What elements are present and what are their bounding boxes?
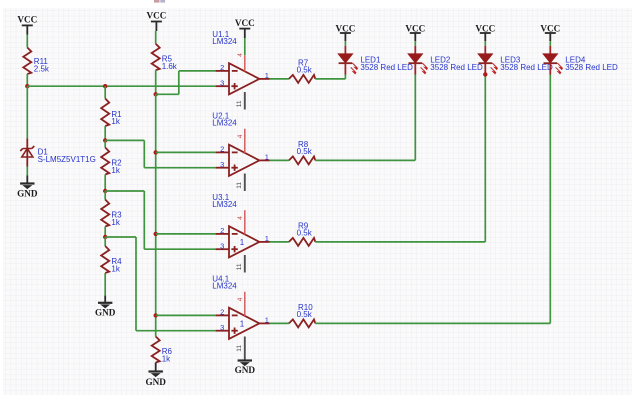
LED1 labels (360, 56, 413, 72)
screen artifact top edge (154, 0, 160, 3)
LED4 labels (565, 56, 618, 72)
resistor R10 body (289, 319, 315, 327)
svg-text:1: 1 (240, 320, 245, 329)
svg-text:1k: 1k (111, 264, 120, 273)
svg-text:LM324: LM324 (212, 37, 237, 46)
svg-text:VCC: VCC (405, 23, 425, 33)
label R7 (298, 59, 309, 68)
op-amp U3.1 pin numbers (220, 226, 269, 250)
svg-text:3528 Red LED: 3528 Red LED (500, 63, 553, 72)
VCC symbol above LED1 (335, 23, 355, 41)
op-amp U1.1 pin 11 (244, 92, 246, 110)
wire bus node A to U1 pin3 (27, 85, 215, 87)
wire R5 to node E (155, 70, 157, 94)
svg-text:LM324: LM324 (212, 282, 237, 291)
wire node D jog down (135, 237, 137, 331)
svg-text:11: 11 (236, 100, 243, 107)
svg-text:1k: 1k (111, 117, 120, 126)
svg-text:2.5k: 2.5k (34, 65, 50, 74)
resistor R4 body (101, 246, 109, 273)
svg-text:0.5k: 0.5k (297, 229, 313, 238)
GND symbol under R4 (95, 296, 116, 318)
GND symbol under U4 pin 11 (235, 361, 256, 376)
wire node C to U3 pin3 (144, 248, 215, 250)
wire LED3 cathode down (484, 75, 486, 242)
wire U1 output to R7 (270, 78, 289, 80)
label R6 1k (162, 347, 173, 363)
svg-text:LM324: LM324 (212, 119, 237, 128)
svg-text:11: 11 (236, 182, 243, 189)
zener diode D1 (20, 139, 34, 167)
resistor R3 body (101, 200, 109, 227)
label R5 1.6k (162, 55, 178, 71)
svg-text:2: 2 (220, 63, 224, 72)
svg-text:GND: GND (235, 365, 256, 375)
GND symbol under D1 (17, 176, 38, 199)
wire node E to U1 pin2 (179, 70, 216, 72)
op-amp U1.1 designator (212, 30, 237, 46)
LED3 labels (500, 56, 553, 72)
op-amp U3.1 pin 11 (244, 255, 246, 273)
wire node E to U4 pin2 (156, 314, 216, 316)
VCC net flag (R5 column) (146, 11, 166, 31)
wire R7 to LED1 column (315, 78, 345, 80)
junction node E at U3 pin2 tap (154, 232, 158, 236)
svg-text:VCC: VCC (475, 23, 495, 33)
svg-text:0.5k: 0.5k (297, 310, 313, 319)
wire node D jog right (105, 236, 136, 238)
svg-text:1k: 1k (111, 166, 120, 175)
junction at LED3 cathode (483, 72, 487, 76)
wire LED4 cathode down (549, 75, 551, 324)
svg-text:VCC: VCC (146, 11, 166, 21)
svg-text:3528 Red LED: 3528 Red LED (360, 63, 413, 72)
wire R4 to GND (104, 273, 106, 296)
wire D1 to GND (26, 167, 28, 176)
op-amp U4.1 pin 4 (244, 292, 246, 316)
op-amp U2.1 body (216, 145, 270, 176)
wire U3 output to R9 (270, 241, 289, 243)
resistor R6 body (152, 337, 160, 363)
resistor R11 body (23, 48, 31, 74)
svg-text:4: 4 (237, 297, 244, 301)
op-amp U4.1 pin numbers (220, 308, 269, 332)
junction node E at U2 pin2 tap (154, 150, 158, 154)
VCC symbol above LED4 (540, 23, 560, 41)
svg-text:1k: 1k (162, 354, 171, 363)
wire node B jog down (143, 140, 145, 167)
junction node B (R1/R2 tap) (103, 138, 107, 142)
wire VCC to LED3 (484, 41, 486, 46)
wire R10 to LED4 column (315, 322, 550, 324)
VCC symbol above LED3 (475, 23, 495, 41)
svg-text:4: 4 (237, 53, 244, 57)
op-amp U1.1 pin 4 (244, 55, 246, 71)
wire U2 output to R8 (270, 159, 289, 161)
wire R3 to node D (104, 227, 106, 238)
wire node C jog right (105, 190, 144, 192)
wire VCC to LED2 (414, 41, 416, 46)
svg-text:2: 2 (220, 226, 224, 235)
resistor R2 body (101, 148, 109, 175)
wire R9 to LED3 column (315, 241, 485, 243)
wire R2 to node C (104, 175, 106, 192)
svg-text:LM324: LM324 (212, 200, 237, 209)
LED3 symbol (479, 46, 493, 75)
op-amp U1.1 pin numbers (220, 63, 269, 87)
svg-text:2: 2 (220, 145, 224, 154)
svg-text:3: 3 (220, 79, 224, 88)
wire R1 to node B (104, 126, 106, 140)
svg-text:3: 3 (220, 242, 224, 251)
wire VCC to R11 (26, 35, 28, 48)
junction node D (R3/R4 tap) (103, 235, 107, 239)
wire node D to R4 (104, 237, 106, 246)
svg-text:2: 2 (220, 308, 224, 317)
wire VCC to LED4 (549, 41, 551, 46)
svg-text:0.5k: 0.5k (297, 66, 313, 75)
wire node E to U2 pin2 (156, 151, 216, 153)
svg-text:1: 1 (265, 71, 269, 80)
junction node C (R2/R3 tap) (103, 189, 107, 193)
wire node E jog up (178, 71, 180, 94)
svg-text:S-LM5Z5V1T1G: S-LM5Z5V1T1G (38, 155, 96, 164)
LED4 symbol (544, 46, 558, 75)
svg-text:3: 3 (220, 323, 224, 332)
svg-text:VCC: VCC (335, 23, 355, 33)
wire node A down to D1 (26, 86, 28, 138)
svg-text:VCC: VCC (235, 18, 255, 28)
svg-text:3528 Red LED: 3528 Red LED (565, 63, 618, 72)
op-amp U2.1 pin 11 (244, 174, 246, 192)
op-amp U4.1 body (216, 308, 270, 339)
resistor R5 body (152, 44, 160, 70)
svg-text:3: 3 (220, 160, 224, 169)
LED2 symbol (409, 46, 423, 75)
svg-text:1k: 1k (111, 218, 120, 227)
svg-text:11: 11 (236, 345, 243, 352)
label R11 2.5k (34, 57, 50, 74)
op-amp U4.1 pin 11 (244, 337, 246, 360)
label R8 (298, 140, 309, 149)
svg-text:4: 4 (237, 216, 244, 220)
wire node B jog right (105, 139, 144, 141)
wire VCC to R5 (155, 31, 157, 44)
svg-text:4: 4 (237, 134, 244, 138)
svg-text:VCC: VCC (17, 15, 37, 25)
wire node B to R2 (104, 140, 106, 147)
svg-text:GND: GND (17, 188, 38, 198)
wire VCC to U1 pin4 (244, 38, 246, 55)
wire node E vertical to R6 (155, 94, 157, 336)
VCC net flag (R11 column) (17, 15, 37, 35)
svg-text:GND: GND (95, 307, 116, 317)
label R9 (298, 222, 309, 231)
op-amp U3.1 designator (212, 193, 237, 209)
resistor R7 body (289, 75, 315, 83)
svg-text:0.5k: 0.5k (297, 147, 313, 156)
label R4 1k (111, 257, 122, 273)
wire R11 to node A (26, 74, 28, 86)
label R10 (298, 303, 313, 312)
op-amp U2.1 pin 4 (244, 129, 246, 153)
junction node A at R11/D1 (25, 84, 29, 88)
LED2 labels (430, 56, 483, 72)
wire R8 to LED2 column (315, 159, 415, 161)
svg-text:GND: GND (145, 377, 166, 387)
op-amp U3.1 pin 4 (244, 210, 246, 234)
svg-text:1: 1 (265, 234, 269, 243)
svg-text:1: 1 (265, 153, 269, 162)
svg-text:1.6k: 1.6k (162, 62, 178, 71)
op-amp U4.1 designator (212, 274, 237, 290)
LED1 symbol (339, 46, 353, 75)
wire node E to U3 pin2 (156, 233, 216, 235)
junction node A at R1 top (103, 84, 107, 88)
svg-text:11: 11 (236, 263, 243, 270)
wire LED1 cathode down (344, 75, 346, 79)
wire node C jog down (143, 191, 145, 249)
op-amp U2.1 designator (212, 111, 237, 127)
wire node A to R1 (104, 86, 106, 98)
resistor R8 body (289, 156, 315, 164)
wire node D to U4 pin3 (136, 330, 216, 332)
label R1 1k (111, 110, 122, 126)
VCC net flag (U1 pin 4) (235, 18, 255, 38)
wire LED2 cathode down (414, 75, 416, 161)
label D1 (38, 148, 96, 165)
label R2 1k (111, 159, 122, 175)
VCC symbol above LED2 (405, 23, 425, 41)
wire U4 output to R10 (270, 322, 289, 324)
resistor R1 body (101, 99, 109, 127)
junction node E (R5/R6 threshold) (154, 92, 158, 96)
op-amp U1.1 body (216, 63, 270, 94)
wire node C to R3 (104, 191, 106, 200)
wire node E jog right (156, 93, 179, 95)
label R3 1k (111, 211, 122, 227)
svg-text:3528 Red LED: 3528 Red LED (430, 63, 483, 72)
op-amp U2.1 pin numbers (220, 145, 269, 169)
svg-text:VCC: VCC (540, 23, 560, 33)
GND symbol under R6 (145, 363, 166, 387)
wire node B to U2 pin3 (144, 167, 215, 169)
wire VCC to LED1 (344, 41, 346, 46)
resistor R9 body (289, 238, 315, 246)
svg-text:1: 1 (265, 316, 269, 325)
svg-text:1: 1 (240, 238, 245, 247)
junction node E at U4 pin2 tap (154, 313, 158, 317)
op-amp U3.1 body (216, 226, 270, 257)
